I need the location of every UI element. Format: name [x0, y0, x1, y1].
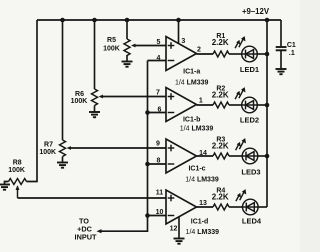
op-amp U1d (IC1-d, 1/4 LM339) [166, 190, 197, 224]
wire: R8 left end to ground [5, 182, 9, 185]
wire: rail drop to R7 [62, 20, 64, 140]
wire: R8 wiper to pin 11 [18, 197, 167, 199]
wire: output d to R4 [197, 206, 214, 208]
LED4 [236, 189, 258, 215]
svg-text:IC1-a: IC1-a [183, 69, 200, 76]
op-amp U1a (IC1-a, 1/4 LM339) [166, 37, 197, 71]
junction on rail at pin 3 [176, 18, 181, 23]
resistor R2 [213, 102, 229, 108]
svg-text:1/4 LM339: 1/4 LM339 [180, 125, 214, 132]
junction: bus / pin 6 [145, 110, 150, 115]
wire: R5 wiper to pin 5 [135, 45, 167, 47]
wire: R1 to LED1 [229, 53, 242, 55]
R7 wiper arrow [67, 146, 72, 150]
resistor R4 [213, 204, 229, 210]
svg-text:R8: R8 [13, 160, 22, 167]
svg-text:1/4 LM339: 1/4 LM339 [186, 229, 220, 236]
resistor R5 (pot, vertical) [124, 39, 130, 55]
wire: output b to R2 [197, 104, 214, 106]
LED3 [236, 138, 258, 164]
op-amp U1b (IC1-b, 1/4 LM339) [166, 88, 197, 122]
wire: R6 bottom to ground [94, 106, 96, 113]
ground (IC1-d pin 12) [174, 239, 185, 244]
junction: LED2 / +V column [265, 103, 270, 108]
input bus arrowhead to DC input [97, 229, 102, 233]
svg-text:LED4: LED4 [242, 217, 262, 226]
svg-text:8: 8 [157, 158, 161, 165]
svg-text:1/4 LM339: 1/4 LM339 [175, 80, 209, 87]
wire: rail left drop to R8 [27, 20, 38, 182]
resistor R6 (pot, vertical) [92, 89, 98, 106]
svg-text:7: 7 [156, 90, 160, 97]
junction on rail at R7 column [60, 18, 65, 23]
wire: R3 to LED3 [229, 155, 242, 157]
svg-text:C1: C1 [287, 42, 296, 49]
svg-text:+9–12V: +9–12V [242, 7, 270, 16]
svg-text:IC1-d: IC1-d [191, 219, 209, 226]
wire: C1 to ground [280, 51, 282, 69]
capacitor C1 [276, 46, 287, 48]
ground (C1) [276, 69, 287, 74]
wire: bus to pin 6 [148, 112, 167, 114]
wire: R7 wiper to pin 9 [70, 147, 167, 149]
svg-text:LED3: LED3 [241, 168, 260, 177]
resistor R1 [213, 51, 229, 57]
ground (R7) [57, 163, 68, 168]
svg-text:LED2: LED2 [240, 116, 259, 125]
wire: rail drop to R5 [126, 20, 128, 39]
svg-text:100K: 100K [71, 98, 88, 105]
svg-text:5: 5 [157, 39, 161, 46]
resistor R7 (pot, vertical) [60, 140, 66, 157]
wire: R5 bottom to ground [126, 55, 128, 62]
svg-text:2.2K: 2.2K [212, 91, 229, 100]
R8 wiper arrow [16, 185, 20, 190]
svg-text:.1: .1 [289, 50, 295, 57]
svg-text:2: 2 [197, 47, 201, 54]
ground (R8) [0, 185, 10, 190]
wire: bus to pin 8 [148, 163, 167, 165]
resistor R8 (pot, horizontal) [9, 179, 27, 185]
junction on rail at LED column [265, 18, 270, 23]
svg-text:6: 6 [158, 107, 162, 114]
wire: rail drop to R6 [94, 20, 96, 89]
svg-text:1: 1 [199, 98, 203, 105]
LED1 [235, 36, 257, 62]
wire: bus to pin 4 [148, 60, 167, 62]
svg-text:12: 12 [170, 226, 178, 233]
wire: +V LED column [266, 20, 268, 207]
LED2 [235, 87, 257, 113]
wire: LED1 to +V column [257, 53, 267, 55]
R5 wiper arrow [131, 44, 136, 48]
svg-text:2.2K: 2.2K [212, 38, 229, 47]
wire: LED2 to +V column [257, 104, 267, 106]
svg-text:11: 11 [156, 190, 164, 197]
pin 12 (GND) wire [178, 217, 180, 239]
svg-text:R6: R6 [75, 91, 84, 98]
junction: bus / pin 8 [145, 162, 150, 167]
op-amp U1c (IC1-c, 1/4 LM339) [166, 139, 197, 173]
svg-text:2.2K: 2.2K [212, 193, 229, 202]
wire: R7 bottom to ground [62, 157, 64, 163]
svg-text:13: 13 [199, 200, 207, 207]
wire: LED3 to +V column [258, 155, 267, 157]
ground (R6) [89, 112, 100, 117]
wire: R4 to LED4 [229, 206, 243, 208]
wire: +V top rail [37, 19, 281, 21]
wire: LED4 to +V column [258, 206, 267, 208]
junction: bus / pin 10 [145, 213, 150, 218]
junction: LED3 / +V column [265, 154, 270, 159]
wire: input bus vertical [100, 61, 148, 232]
junction: LED1 / +V column [265, 52, 270, 57]
wire: rail to C1 [280, 20, 282, 46]
svg-text:IC1-b: IC1-b [183, 117, 201, 124]
svg-text:LED1: LED1 [240, 65, 259, 74]
junction on rail at R6 column [92, 18, 97, 23]
svg-text:3: 3 [181, 38, 185, 45]
svg-text:R7: R7 [44, 142, 53, 149]
svg-text:2.2K: 2.2K [212, 142, 229, 151]
resistor R3 [213, 153, 229, 159]
R6 wiper arrow [99, 95, 104, 99]
svg-text:4: 4 [157, 55, 161, 62]
svg-text:100K: 100K [8, 167, 25, 174]
ground (R5) [122, 62, 133, 67]
wire: bus to pin 10 [148, 215, 167, 217]
wire: output a to R1 [197, 53, 214, 55]
svg-text:9: 9 [156, 141, 160, 148]
svg-text:1/4 LM339: 1/4 LM339 [185, 177, 219, 184]
pin 3 (V+) wire [178, 20, 180, 44]
junction on rail at R5 column [125, 18, 130, 23]
svg-text:10: 10 [156, 209, 164, 216]
wire: output c to R3 [197, 155, 214, 157]
svg-text:100K: 100K [103, 46, 120, 53]
svg-text:INPUT: INPUT [75, 233, 97, 242]
svg-text:100K: 100K [39, 149, 56, 156]
wire: R2 to LED2 [229, 104, 242, 106]
wire: R6 wiper to pin 7 [102, 96, 167, 98]
svg-text:IC1-c: IC1-c [188, 166, 205, 173]
svg-text:R5: R5 [107, 37, 116, 44]
